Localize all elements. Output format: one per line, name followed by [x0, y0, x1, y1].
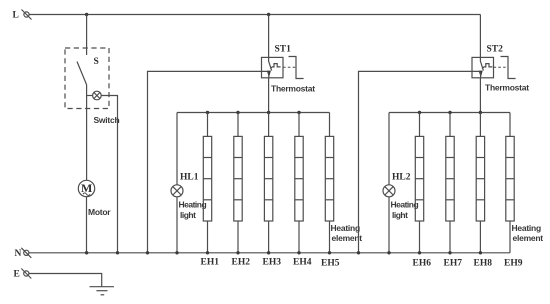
terminal E — [21, 269, 31, 279]
svg-text:Switch: Switch — [94, 115, 120, 125]
wire HL1 to N — [176, 197, 178, 253]
junction EH1 at N — [206, 251, 209, 254]
svg-text:EH6: EH6 — [413, 258, 432, 268]
svg-text:HL2: HL2 — [392, 173, 411, 183]
wire ST1 to element bus — [268, 78, 270, 113]
junction ST2 return at N — [357, 251, 360, 254]
svg-text:N: N — [15, 249, 22, 259]
svg-text:EH8: EH8 — [474, 258, 493, 268]
heating element EH8 — [476, 113, 484, 253]
heating light HL1 — [171, 185, 183, 197]
junction EH8 top — [479, 111, 482, 114]
wire ST2 to element bus — [479, 78, 481, 113]
wire ST2 left terminal — [359, 71, 481, 252]
junction EH8 at N — [479, 251, 482, 254]
thermostat ST1 — [262, 57, 304, 79]
heating element EH1 — [203, 113, 211, 253]
junction at ST1 branch — [267, 13, 270, 16]
svg-text:EH7: EH7 — [444, 258, 463, 268]
wire N bus — [29, 252, 510, 254]
svg-text:EH4: EH4 — [293, 257, 312, 267]
wire ST1 left terminal — [148, 71, 269, 252]
svg-text:M: M — [81, 181, 92, 195]
terminal L — [22, 10, 32, 20]
svg-text:EH5: EH5 — [321, 258, 340, 268]
junction EH5 at N — [328, 251, 331, 254]
junction at switch branch — [85, 13, 88, 16]
svg-text:Heating: Heating — [179, 200, 207, 210]
svg-text:Heating: Heating — [391, 200, 419, 210]
svg-text:Motor: Motor — [88, 207, 111, 217]
svg-text:S: S — [94, 57, 99, 67]
junction EH1 top — [206, 111, 209, 114]
junction EH2 top — [236, 111, 239, 114]
junction EH7 top — [448, 111, 451, 114]
junction motor at N — [85, 251, 88, 254]
svg-text:light: light — [392, 210, 408, 220]
svg-text:Thermostat: Thermostat — [485, 82, 529, 92]
wire L to ST1 — [268, 15, 270, 58]
wire element bus left — [177, 112, 330, 114]
junction ST1 return at N — [146, 251, 149, 254]
junction EH3 top — [267, 111, 270, 114]
heating light HL2 — [383, 185, 395, 197]
heating element EH4 — [295, 113, 303, 253]
junction switch lamp at N — [116, 251, 119, 254]
wire HL2 to N — [388, 197, 390, 253]
svg-text:HL1: HL1 — [180, 173, 199, 183]
wire E to ground — [29, 274, 102, 287]
switch S dashed enclosure — [65, 48, 109, 109]
switch S blade — [77, 62, 87, 85]
junction HL1 at N — [175, 251, 178, 254]
junction EH4 at N — [297, 251, 300, 254]
heating element EH2 — [234, 113, 242, 253]
svg-text:EH3: EH3 — [263, 257, 282, 267]
heating element EH5 — [325, 113, 333, 253]
svg-text:EH2: EH2 — [232, 257, 251, 267]
wire L bus top — [29, 14, 480, 16]
wire bus to HL2 — [388, 113, 390, 185]
svg-text:Heating: Heating — [512, 223, 541, 233]
junction EH3 at N — [267, 251, 270, 254]
heating element EH3 — [264, 113, 272, 253]
svg-text:Heating: Heating — [331, 223, 360, 233]
ground — [90, 287, 115, 295]
junction EH4 top — [297, 111, 300, 114]
svg-text:ST2: ST2 — [487, 45, 504, 55]
svg-text:Thermostat: Thermostat — [271, 83, 315, 93]
terminal N — [21, 248, 31, 258]
junction EH7 at N — [448, 251, 451, 254]
svg-text:EH1: EH1 — [201, 257, 220, 267]
svg-text:E: E — [14, 270, 20, 280]
svg-text:light: light — [180, 210, 196, 220]
junction EH6 at N — [418, 251, 421, 254]
junction HL2 at N — [387, 251, 390, 254]
svg-text:element: element — [332, 233, 363, 243]
svg-text:EH9: EH9 — [504, 258, 523, 268]
junction EH6 top — [418, 111, 421, 114]
svg-text:L: L — [13, 11, 19, 21]
wire L to switch S — [86, 15, 88, 56]
lamp in switch — [93, 91, 102, 100]
junction EH2 at N — [236, 251, 239, 254]
heating element EH6 — [415, 113, 423, 253]
wire switch lamp to N — [101, 96, 117, 253]
wire bus to HL1 — [176, 113, 178, 185]
wire stub to switch lamp — [87, 95, 93, 97]
motor M — [78, 180, 94, 196]
heating element EH9 — [506, 113, 514, 253]
wire motor to N — [86, 197, 88, 253]
wire element bus right — [389, 112, 510, 114]
wire L to ST2 — [479, 15, 481, 58]
svg-text:element: element — [513, 233, 544, 243]
svg-text:ST1: ST1 — [275, 45, 292, 55]
thermostat ST2 — [472, 57, 516, 79]
wire switch to motor — [86, 85, 88, 181]
heating element EH7 — [446, 113, 454, 253]
